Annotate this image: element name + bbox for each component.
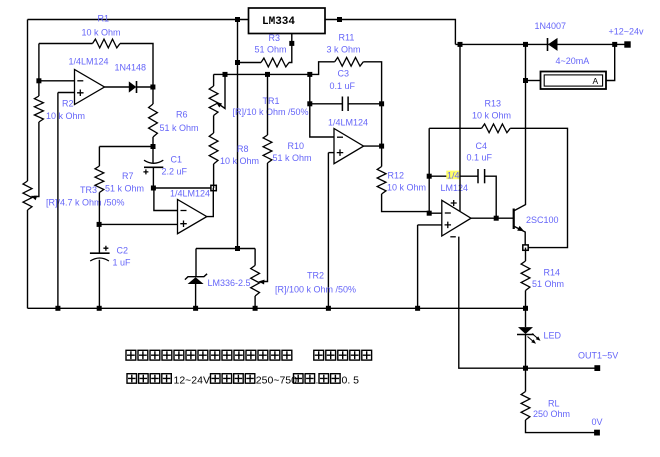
svg-text:1N4007: 1N4007	[535, 21, 567, 31]
junction U1D minus / R12	[427, 211, 432, 216]
LED emission arrow 2	[532, 334, 539, 340]
wire R13 right lead feedback to emitter	[510, 128, 567, 247]
wire +V top rail (left segment to LM334)	[28, 19, 249, 21]
wire C1 bottom lead	[152, 167, 154, 188]
wire mid bus	[214, 62, 335, 75]
capacitor C4 left plate	[477, 169, 479, 183]
C1 plus sign	[143, 169, 148, 174]
svg-text:TR1: TR1	[263, 96, 280, 106]
junction ammeter left / collector column	[523, 78, 528, 83]
capacitor C3 right plate	[347, 97, 349, 112]
resistor R10	[263, 135, 272, 163]
TR1 wiper arrowhead	[216, 102, 222, 108]
U1D V+ mark	[451, 200, 457, 206]
wire R14 bottom lead	[525, 291, 527, 309]
svg-text:1/4: 1/4	[447, 170, 460, 180]
svg-text:10 k Ohm: 10 k Ohm	[387, 183, 426, 193]
wire U1C plus ground column	[327, 153, 329, 309]
ammeter A (inner box)	[544, 75, 602, 86]
svg-text:R8: R8	[237, 144, 249, 154]
wire R10 top lead	[267, 74, 269, 135]
junction R7 / C2 / U1B plus node	[97, 222, 102, 227]
wire U1A inverting input	[39, 80, 75, 82]
wire LM336-TR2 top link	[196, 248, 255, 250]
transistor Q1 collector lead	[514, 128, 526, 211]
junction bus / TR2	[253, 306, 258, 311]
op-amp U1B 1/4LM124	[178, 200, 207, 234]
transistor Q1 base bar	[513, 209, 515, 230]
capacitor C4 right plate	[484, 169, 486, 183]
wire LM334 left pin column (down to LM336 node)	[237, 20, 239, 249]
wire collector column to ammeter node	[525, 81, 527, 129]
svg-text:[R]/100 k Ohm /50%: [R]/100 k Ohm /50%	[275, 284, 356, 294]
svg-text:R2: R2	[62, 99, 74, 109]
U1D label highlight	[446, 171, 460, 180]
svg-text:0V: 0V	[592, 417, 603, 427]
svg-text:10 k Ohm: 10 k Ohm	[220, 156, 259, 166]
svg-text:12~24V.: 12~24V.	[174, 375, 212, 387]
wire U1D plus input	[418, 224, 442, 226]
wire R11 right lead down to C3 right	[363, 62, 381, 104]
U1B plus mark	[180, 220, 187, 227]
junction C2 / ground bus	[97, 306, 102, 311]
svg-text:R1: R1	[98, 14, 110, 24]
title line 2 hanzi run (负载能力)	[211, 374, 221, 384]
title line 1 hanzi run (二线制电流信号发生器电原理图)	[126, 350, 136, 360]
wire RL top lead	[525, 368, 527, 391]
resistor R8	[209, 133, 218, 164]
wire ground bus	[28, 307, 526, 309]
junction bus / U1A plus column	[55, 306, 60, 311]
svg-text:OUT1~5V: OUT1~5V	[578, 351, 618, 361]
svg-text:R14: R14	[544, 268, 561, 278]
wire R14 top lead	[525, 248, 527, 261]
C2 plus sign	[103, 246, 108, 251]
title line 2 hanzi run (工作电压)	[127, 374, 137, 384]
svg-text:1/4LM124: 1/4LM124	[328, 118, 368, 128]
svg-text:250 Ohm: 250 Ohm	[533, 409, 570, 419]
wire R10 bottom lead to TR2 wiper	[262, 163, 268, 282]
svg-text:1/4LM124: 1/4LM124	[69, 56, 109, 66]
svg-text:LED: LED	[544, 331, 562, 341]
junction op-amp U1A minus node	[36, 78, 41, 83]
wire +12V line to terminal	[455, 43, 627, 45]
svg-text:10 k Ohm: 10 k Ohm	[46, 111, 85, 121]
svg-text:10 k Ohm: 10 k Ohm	[472, 111, 511, 121]
wire U1A output	[105, 86, 130, 88]
junction R8 bottom node (open)	[211, 185, 216, 190]
wire U1D output to base	[471, 217, 514, 219]
wire LM336 top lead	[195, 249, 197, 277]
svg-text:R10: R10	[288, 141, 305, 151]
wire C1 top lead	[152, 147, 154, 163]
wire R1 left lead	[39, 43, 93, 45]
LED body	[518, 327, 533, 334]
op-amp U1A 1/4LM124	[75, 70, 105, 105]
svg-text:250~750: 250~750	[256, 375, 297, 387]
wire C3 right lead	[348, 103, 381, 105]
wire LM334 bottom pin	[289, 34, 292, 63]
wire R12 bottom lead	[382, 194, 430, 212]
junction R6 bottom / R7 / C1	[151, 144, 156, 149]
TR3 wiper arrowhead	[31, 196, 38, 201]
resistor R3	[261, 58, 289, 67]
wire U1C output	[364, 145, 382, 147]
capacitor C1 curved plate	[144, 160, 163, 163]
ammeter A (outer box)	[541, 72, 607, 90]
junction U1D output / C4 node	[494, 216, 499, 221]
capacitor C2 curved plate	[90, 258, 109, 261]
resistor R6	[149, 104, 158, 137]
Q1 emitter arrowhead	[517, 226, 524, 231]
U1D minus mark	[445, 212, 451, 214]
U1D V- mark	[450, 236, 456, 238]
svg-text:LM124: LM124	[441, 183, 469, 193]
wire R1 right lead down to diode node	[120, 44, 153, 88]
svg-text:R6: R6	[176, 110, 188, 120]
wire C3-left column to U1C minus	[310, 74, 334, 137]
wire U1A non-inverting input	[58, 92, 75, 94]
potentiometer TR2 body	[251, 265, 260, 296]
wire U1D V+ supply column	[459, 44, 461, 211]
svg-text:TR2: TR2	[307, 271, 324, 281]
wire C4 left lead	[429, 175, 477, 177]
wire OUT lead	[526, 367, 596, 369]
op-amp U1C 1/4LM124	[334, 129, 364, 164]
svg-text:2.2 uF: 2.2 uF	[162, 167, 188, 177]
title line 1 hanzi run (信继华设计)	[314, 350, 324, 360]
terminal 0V	[594, 430, 600, 436]
wire C1 node to R8 bottom node	[153, 187, 213, 189]
wire ammeter right lead riser	[606, 44, 615, 80]
wire ammeter left lead	[526, 80, 541, 82]
svg-text:C3: C3	[338, 69, 350, 79]
wire R2 top lead	[38, 44, 40, 97]
wire left rail upper (top rail to TR3)	[27, 20, 29, 182]
zener LM336-2.5 cathode bar	[185, 274, 207, 280]
junction +12V / diode-ammeter branch	[523, 42, 528, 47]
wire LED top lead	[525, 308, 527, 327]
wire TR2 top lead	[254, 249, 256, 266]
svg-text:0.1 uF: 0.1 uF	[330, 81, 356, 91]
junction top rail / LM334 right pin	[337, 17, 342, 22]
diode D? 1N4007 (body)	[548, 38, 558, 51]
transistor Q1 emitter lead	[514, 226, 525, 247]
svg-text:51 Ohm: 51 Ohm	[255, 45, 287, 55]
wire U1D plus ground column	[417, 225, 419, 308]
U1D plus mark	[445, 222, 452, 229]
diode D? 1N4148 (cathode bar)	[136, 81, 138, 93]
wire R3 left lead	[238, 62, 262, 64]
junction top rail / LM334 left pin	[235, 17, 240, 22]
wire TR1-R8 link	[213, 116, 215, 134]
svg-text:C1: C1	[171, 155, 183, 165]
wire R7 top lead	[98, 147, 100, 167]
junction mid bus / R10	[265, 72, 270, 77]
capacitor C3 left plate	[341, 97, 343, 112]
resistor R14	[521, 261, 530, 291]
svg-text:10 k Ohm: 10 k Ohm	[82, 28, 121, 38]
wire left rail lower (TR3 to ground bus)	[27, 210, 29, 308]
wire TR3 wiper	[34, 122, 39, 197]
svg-text:LM334: LM334	[262, 16, 295, 28]
wire LED bottom lead	[525, 335, 527, 369]
wire TR1 top lead from mid bus	[213, 74, 215, 86]
wire LM336 bottom lead	[195, 284, 197, 308]
resistor R7	[95, 166, 104, 193]
svg-text:R7: R7	[122, 171, 134, 181]
wire R8 bottom lead	[213, 164, 215, 188]
junction emitter node (open)	[523, 245, 528, 250]
resistor R1	[93, 39, 121, 48]
svg-text:51 k Ohm: 51 k Ohm	[105, 184, 144, 194]
wire U1A + input ground column	[57, 93, 59, 309]
svg-text:1/4LM124: 1/4LM124	[170, 189, 210, 199]
svg-text:51 k Ohm: 51 k Ohm	[273, 153, 312, 163]
wire RL bottom lead to 0V terminal	[526, 420, 595, 433]
LED emission arrow 1	[528, 337, 535, 343]
resistor R12	[377, 167, 386, 195]
svg-text:C2: C2	[117, 246, 129, 256]
svg-text:+12~24v: +12~24v	[609, 27, 645, 37]
wire C2 bottom lead	[98, 260, 100, 309]
junction bus / U1D plus column	[415, 306, 420, 311]
potentiometer TR1 body	[209, 86, 218, 116]
junction U1C output / R11-C3-R12 node	[379, 144, 384, 149]
wire TR1 wiper	[218, 74, 226, 108]
junction +12V / supply column	[458, 42, 463, 47]
wire R7 bottom lead	[98, 193, 100, 225]
zener LM336-2.5 body	[188, 277, 204, 284]
capacitor C2 plus plate	[90, 252, 110, 254]
wire U1B output feedback	[207, 188, 214, 217]
wire U1D V- column to OUT node	[459, 237, 526, 369]
svg-text:RL: RL	[548, 399, 560, 409]
wire C2 top lead	[98, 224, 100, 252]
junction OUT node	[523, 366, 528, 371]
wire U1B inverting input	[154, 188, 178, 211]
svg-text:51 Ohm: 51 Ohm	[532, 279, 564, 289]
svg-text:TR3: TR3	[80, 185, 97, 195]
resistor R11	[335, 57, 364, 66]
svg-text:R12: R12	[388, 171, 405, 181]
terminal +12~24v	[624, 41, 630, 47]
wire TR2 bottom lead	[254, 296, 256, 308]
wire C4 right lead down to base node	[485, 176, 496, 218]
svg-text:C4: C4	[476, 141, 488, 151]
svg-text:51 k Ohm: 51 k Ohm	[160, 123, 199, 133]
TR2 wiper arrowhead	[258, 280, 264, 285]
LED cathode bar	[517, 334, 534, 336]
wire R12 top lead	[381, 104, 383, 167]
wire R6 top lead	[152, 87, 154, 104]
wire U1B plus input from R7/C2 node	[99, 223, 177, 225]
junction C3 left node	[307, 101, 312, 106]
diode D? 1N4007 (cathode bar)	[547, 38, 549, 51]
wire 1N4148 cathode lead	[137, 86, 154, 88]
svg-text:0.1 uF: 0.1 uF	[467, 153, 493, 163]
U1C minus mark	[337, 136, 343, 138]
svg-text:1N4148: 1N4148	[115, 63, 147, 73]
LED emission arrow 1 head	[531, 339, 536, 343]
junction bus / LM336	[193, 306, 198, 311]
svg-text:R13: R13	[485, 99, 502, 109]
LM334 U? box	[249, 8, 326, 34]
wire +V top rail (LM334 to corner, down to +12V line)	[325, 20, 455, 45]
svg-text:R11: R11	[339, 33, 355, 43]
junction bus / U1C plus column	[326, 306, 331, 311]
potentiometer TR3 body	[23, 181, 32, 210]
svg-text:.: .	[316, 375, 319, 387]
wire diode junction to ammeter column	[525, 44, 527, 80]
svg-text:[R]/10 k Ohm /50%: [R]/10 k Ohm /50%	[233, 107, 309, 117]
resistor R13	[482, 124, 511, 133]
U1A minus mark	[77, 80, 83, 82]
svg-text:LM336-2.5: LM336-2.5	[208, 278, 251, 288]
wire R6-R7 horizontal link	[99, 146, 153, 148]
title line 2 hanzi run (精度)	[319, 374, 329, 384]
U1C plus mark	[337, 149, 344, 156]
junction C3 right node	[379, 101, 384, 106]
U1A plus mark	[77, 90, 84, 97]
capacitor C1 plus plate	[144, 166, 163, 168]
junction link / LM334 column	[235, 246, 240, 251]
svg-text:A: A	[593, 76, 599, 86]
svg-text:0. 5: 0. 5	[342, 375, 360, 387]
svg-text:R3: R3	[269, 33, 281, 43]
wire R6 bottom lead	[152, 137, 154, 147]
wire C3 left lead	[310, 103, 342, 105]
svg-text:3 k Ohm: 3 k Ohm	[327, 45, 361, 55]
wire U1C plus input	[328, 152, 334, 154]
diode D? 1N4148 (body)	[129, 81, 137, 92]
svg-text:2SC100: 2SC100	[526, 215, 559, 225]
junction LM334 bottom pin / R3	[289, 41, 294, 46]
junction R3 left / column	[235, 60, 240, 65]
junction C4 left / column	[427, 174, 432, 179]
svg-text:1 uF: 1 uF	[113, 258, 132, 268]
junction diode out / R1-R6 column	[150, 85, 155, 90]
resistor R2	[34, 96, 43, 122]
junction R14 / ground bus end	[523, 306, 528, 311]
U1B minus mark	[181, 210, 187, 212]
junction mid bus / C3-minus column	[307, 72, 312, 77]
title line 2 hanzi run (欧姆)	[294, 374, 304, 384]
wire U1D minus node column	[429, 128, 442, 213]
resistor RL	[521, 392, 530, 421]
svg-text:4~20mA: 4~20mA	[556, 56, 590, 66]
junction C1 bottom / feedback node	[151, 186, 156, 191]
junction +12V / ammeter right riser	[612, 42, 617, 47]
op-amp U1D 1/4LM124	[442, 200, 471, 236]
LED emission arrow 2 head	[536, 336, 541, 340]
wire R13 left lead	[429, 127, 481, 129]
junction mid bus / TR1 wiper	[223, 72, 228, 77]
terminal OUT1~5V	[594, 365, 600, 371]
